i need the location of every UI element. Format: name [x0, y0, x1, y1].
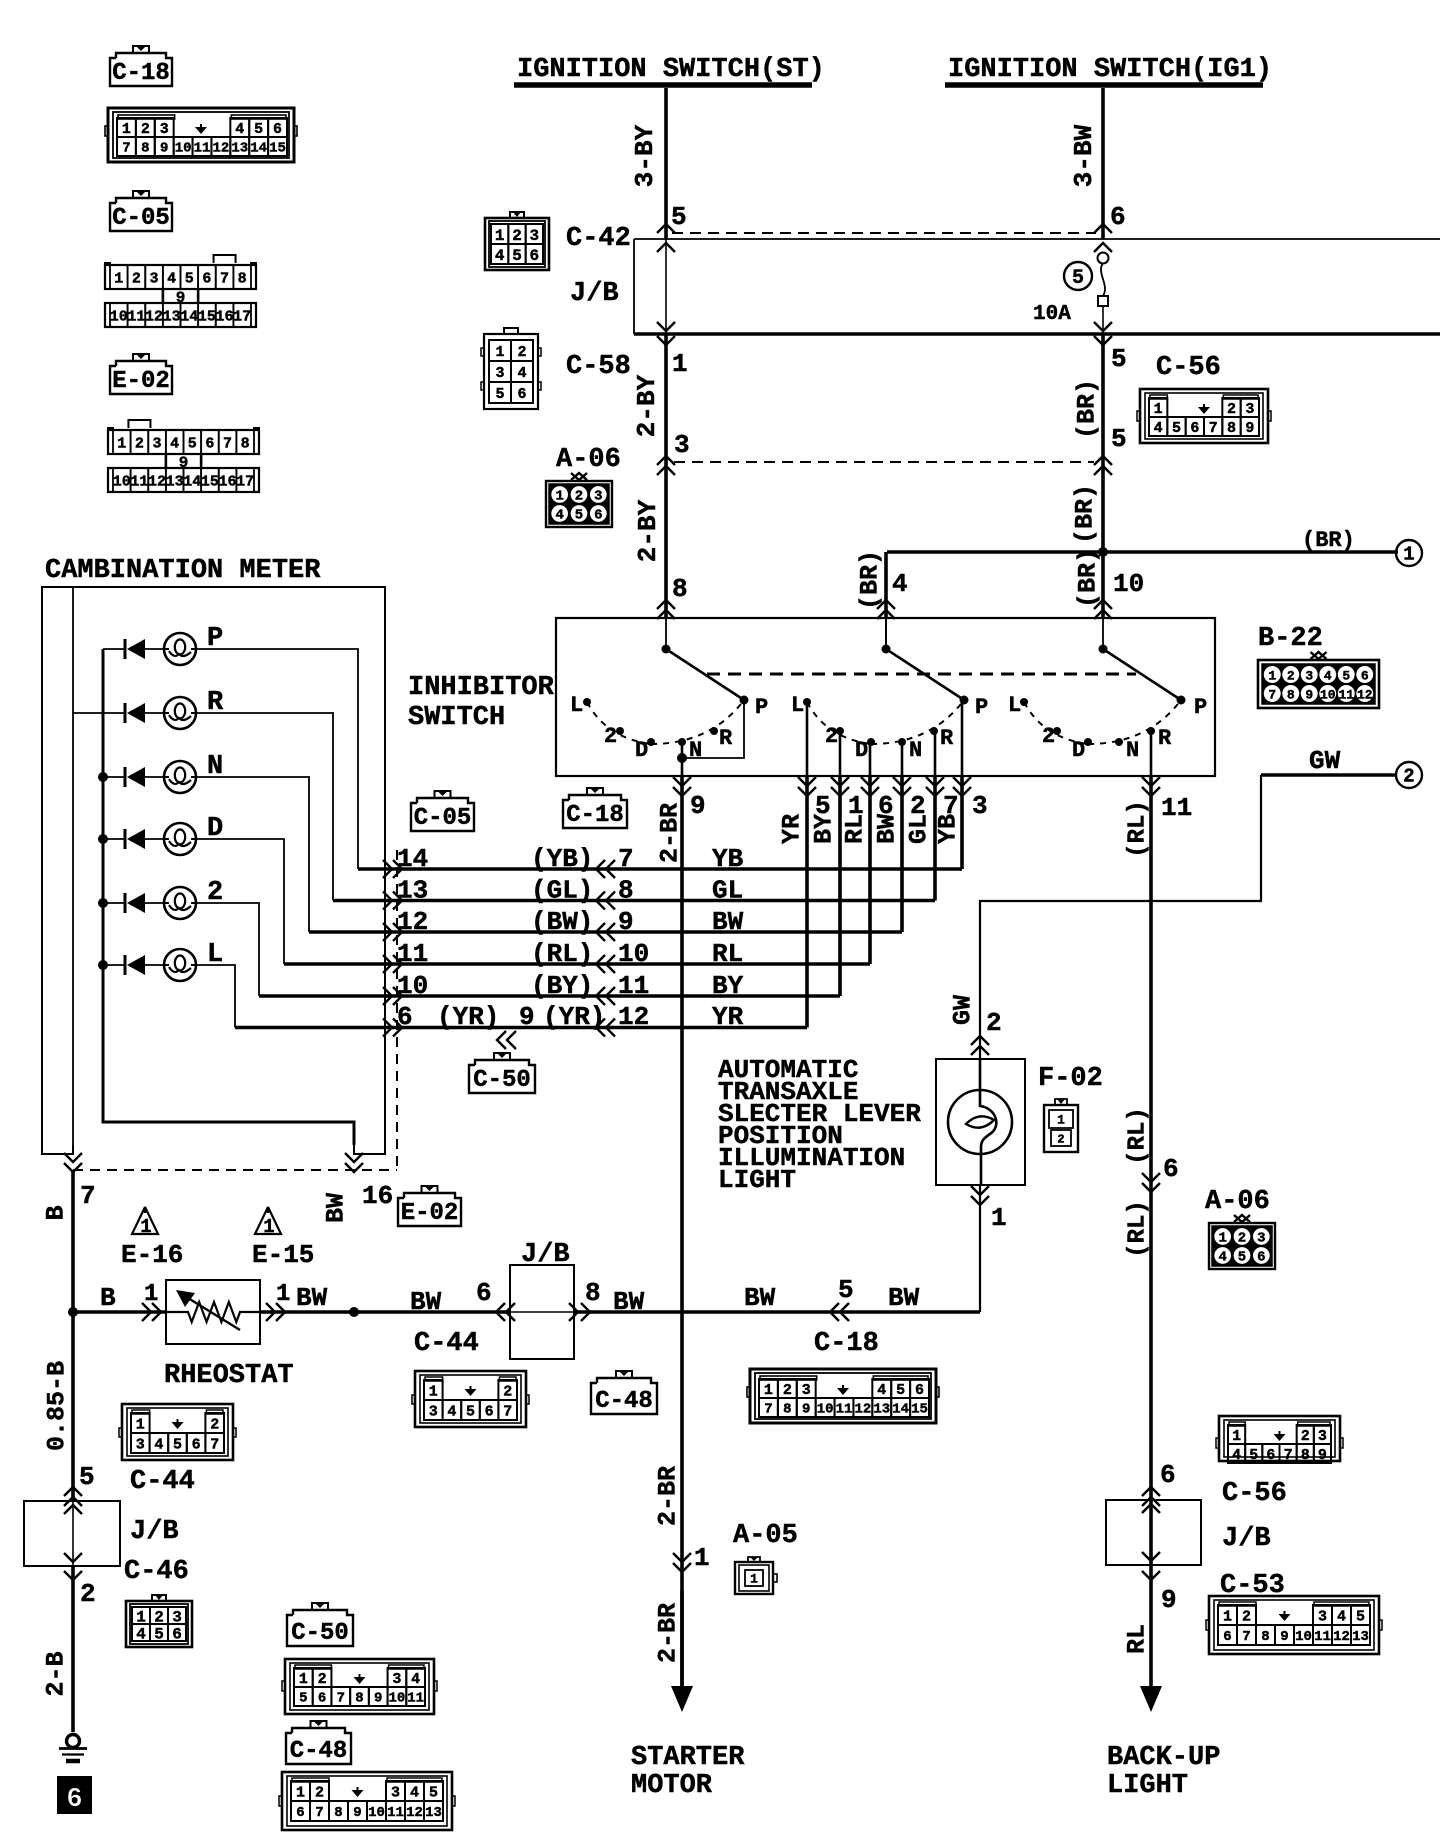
svg-text:5: 5 — [1072, 267, 1084, 290]
svg-text:(RL): (RL) — [1125, 1200, 1152, 1258]
svg-text:9: 9 — [802, 1402, 810, 1418]
connector C-56 right — [1216, 1416, 1343, 1509]
svg-text:F-02: F-02 — [1038, 1064, 1103, 1094]
svg-text:16: 16 — [362, 1181, 393, 1211]
label A-06 right — [1205, 1187, 1275, 1269]
svg-text:RL: RL — [841, 814, 870, 844]
svg-text:1: 1 — [495, 227, 505, 245]
svg-text:C-56: C-56 — [1156, 353, 1221, 383]
svg-text:C-18: C-18 — [814, 1329, 879, 1359]
svg-text:17: 17 — [233, 308, 251, 325]
wire GW down to F-02 lamp — [949, 775, 1262, 1059]
svg-text:3: 3 — [594, 489, 602, 505]
svg-text:5: 5 — [671, 202, 687, 232]
pin 16 of meter connector — [322, 1153, 394, 1223]
svg-text:9: 9 — [690, 791, 706, 821]
terminal circle 1 — [1396, 540, 1422, 566]
svg-text:10: 10 — [1113, 569, 1144, 599]
svg-text:15: 15 — [198, 308, 216, 325]
svg-text:6: 6 — [517, 386, 526, 403]
pin 9 output pole1 2-BR — [656, 777, 706, 863]
svg-text:YB: YB — [934, 814, 963, 844]
svg-text:SWITCH: SWITCH — [408, 703, 505, 733]
svg-text:5: 5 — [1238, 1250, 1246, 1266]
svg-text:3: 3 — [429, 1403, 438, 1420]
svg-text:13: 13 — [231, 141, 248, 157]
connector C-53 — [1209, 1596, 1379, 1654]
svg-text:11: 11 — [127, 308, 145, 325]
connector C-18 bottom — [747, 1329, 939, 1423]
connector C-05 ref — [214, 255, 236, 263]
svg-text:BW: BW — [873, 814, 902, 844]
svg-text:12: 12 — [618, 1002, 649, 1032]
svg-text:15: 15 — [201, 473, 219, 490]
svg-text:5: 5 — [154, 1625, 164, 1643]
svg-text:14: 14 — [183, 473, 201, 490]
svg-text:5: 5 — [1111, 424, 1127, 454]
svg-text:CAMBINATION METER: CAMBINATION METER — [45, 556, 321, 586]
wire B column to rheostat row — [68, 1170, 78, 1317]
svg-text:16: 16 — [216, 308, 234, 325]
connector label C-48 mid — [616, 1371, 632, 1378]
svg-text:4: 4 — [447, 1403, 456, 1420]
svg-text:C-46: C-46 — [124, 1557, 189, 1587]
wire BW to F-02 pin 5 C-18 — [744, 1185, 980, 1321]
svg-text:5: 5 — [495, 386, 504, 403]
svg-text:6: 6 — [1163, 1154, 1179, 1184]
svg-text:1: 1 — [764, 1382, 773, 1399]
svg-text:N: N — [689, 738, 702, 763]
svg-text:1: 1 — [1223, 1608, 1232, 1625]
svg-text:RL: RL — [1123, 1624, 1152, 1654]
pin 7 of meter connector — [42, 1153, 96, 1221]
svg-text:5: 5 — [466, 1403, 475, 1420]
svg-text:7: 7 — [122, 141, 130, 157]
svg-text:A-05: A-05 — [733, 1521, 798, 1551]
wire GW to terminal 2 — [1261, 746, 1395, 776]
svg-text:3: 3 — [1318, 1608, 1327, 1625]
svg-text:GW: GW — [1309, 746, 1341, 776]
svg-text:(RL): (RL) — [1125, 800, 1152, 858]
connector F-02 — [1038, 1064, 1103, 1152]
svg-text:12: 12 — [854, 1402, 871, 1418]
svg-text:L: L — [570, 693, 583, 718]
connector label C-18 ref — [133, 46, 149, 53]
svg-text:2-BR: 2-BR — [656, 803, 685, 863]
svg-text:15: 15 — [911, 1402, 928, 1418]
svg-text:5: 5 — [429, 1784, 438, 1801]
connector label C-05 above matrix — [435, 791, 451, 798]
connector C-58 — [481, 328, 631, 409]
svg-text:J/B: J/B — [1222, 1524, 1271, 1554]
svg-text:(YB): (YB) — [531, 844, 593, 874]
svg-text:12: 12 — [406, 1805, 423, 1821]
junction block J/B 4 right — [1106, 1500, 1271, 1565]
svg-text:C-05: C-05 — [112, 205, 170, 232]
svg-text:3: 3 — [495, 365, 504, 382]
svg-text:3: 3 — [802, 1382, 811, 1399]
svg-text:9: 9 — [353, 1805, 361, 1821]
svg-text:1: 1 — [1154, 401, 1163, 418]
wire RL back-up trunk — [1149, 776, 1153, 1700]
indicator lamp P with diode — [103, 624, 223, 665]
junction block J/B box — [634, 239, 1440, 334]
svg-text:10A: 10A — [1033, 303, 1071, 326]
svg-text:8: 8 — [1227, 420, 1236, 437]
svg-text:B: B — [100, 1283, 116, 1313]
svg-text:8: 8 — [238, 270, 247, 287]
svg-text:1: 1 — [991, 1203, 1007, 1233]
svg-text:5: 5 — [1249, 1447, 1258, 1464]
svg-text:(RL): (RL) — [1125, 1107, 1152, 1165]
svg-text:BACK-UP: BACK-UP — [1107, 1743, 1220, 1773]
svg-text:6: 6 — [202, 270, 211, 287]
wire lamp P to row — [195, 649, 358, 869]
wire row 6 (YR) 12 YR — [235, 776, 807, 1049]
svg-text:9: 9 — [160, 141, 168, 157]
svg-text:7: 7 — [220, 270, 229, 287]
svg-text:8: 8 — [334, 1805, 342, 1821]
pin 11 output pole3 — [1125, 777, 1193, 858]
svg-text:13: 13 — [425, 1805, 442, 1821]
svg-text:10: 10 — [110, 308, 128, 325]
svg-text:1: 1 — [114, 270, 123, 287]
svg-text:6: 6 — [1223, 1629, 1231, 1645]
svg-text:5: 5 — [1356, 1608, 1365, 1625]
svg-text:6: 6 — [296, 1805, 304, 1821]
svg-text:L: L — [791, 693, 804, 718]
pin 2 C-46 — [64, 1557, 189, 1609]
svg-text:11: 11 — [387, 1805, 404, 1821]
svg-text:3: 3 — [674, 430, 690, 460]
svg-text:9: 9 — [618, 907, 634, 937]
svg-text:(YR): (YR) — [437, 1002, 499, 1032]
label A-05 — [733, 1521, 798, 1594]
svg-text:1: 1 — [1403, 544, 1414, 566]
svg-text:6: 6 — [530, 247, 540, 265]
svg-text:2: 2 — [604, 724, 617, 749]
pin 1 of F-02 — [971, 1186, 1007, 1233]
wire IG1 3-BW — [1069, 88, 1103, 239]
svg-text:R: R — [1158, 726, 1172, 751]
svg-text:13: 13 — [166, 473, 184, 490]
svg-text:7: 7 — [1209, 420, 1218, 437]
svg-text:1: 1 — [263, 1216, 274, 1238]
pin 6 of C-42 — [1094, 202, 1126, 233]
svg-text:10: 10 — [389, 1691, 406, 1707]
svg-text:0.85-B: 0.85-B — [43, 1361, 72, 1451]
junction block J/B 2 — [510, 1240, 574, 1359]
svg-text:C-50: C-50 — [291, 1620, 349, 1647]
svg-text:8: 8 — [672, 574, 688, 604]
svg-text:D: D — [1072, 738, 1085, 763]
svg-text:MOTOR: MOTOR — [631, 1771, 713, 1801]
svg-text:1: 1 — [117, 435, 126, 452]
svg-text:2: 2 — [825, 724, 838, 749]
svg-text:7: 7 — [337, 1691, 345, 1707]
svg-text:5: 5 — [299, 1691, 307, 1707]
junction block J/B 3 left — [24, 1501, 179, 1566]
svg-text:7: 7 — [1268, 688, 1276, 703]
connector label E-02 ref — [133, 354, 149, 361]
svg-text:17: 17 — [236, 473, 254, 490]
svg-text:C-50: C-50 — [473, 1067, 531, 1094]
svg-text:6: 6 — [485, 1403, 494, 1420]
terminal circle 2 — [1396, 762, 1422, 788]
svg-text:6: 6 — [1160, 1460, 1176, 1490]
connector C-50 bottom — [285, 1659, 434, 1714]
connector label C-50 bottom — [312, 1603, 328, 1610]
svg-text:(BR): (BR) — [856, 550, 885, 610]
svg-text:2: 2 — [318, 1671, 327, 1688]
svg-text:5: 5 — [1111, 344, 1127, 374]
meter lamp bus — [103, 649, 354, 1145]
svg-text:1: 1 — [136, 1416, 145, 1433]
wire row 11 (RL) RL — [284, 776, 870, 973]
wire (BR) to junction — [1071, 484, 1100, 544]
svg-text:4: 4 — [411, 1671, 420, 1688]
svg-text:2: 2 — [1242, 1608, 1251, 1625]
svg-text:1: 1 — [299, 1671, 308, 1688]
svg-text:1: 1 — [429, 1383, 438, 1400]
wire (RL) labels down right — [1125, 1107, 1179, 1258]
svg-text:11: 11 — [836, 1402, 853, 1418]
svg-text:2: 2 — [141, 121, 150, 138]
svg-text:8: 8 — [141, 141, 149, 157]
svg-text:1: 1 — [276, 1281, 290, 1308]
title IGNITION SWITCH(ST) — [514, 55, 825, 85]
svg-text:E-15: E-15 — [252, 1240, 314, 1270]
pin 6 to J/B right — [1142, 1460, 1176, 1506]
svg-text:9: 9 — [1318, 1447, 1327, 1464]
svg-text:YR: YR — [712, 1002, 744, 1032]
svg-text:2: 2 — [135, 435, 144, 452]
svg-text:12: 12 — [1333, 1629, 1350, 1645]
svg-text:J/B: J/B — [570, 279, 619, 309]
svg-text:6: 6 — [318, 1691, 326, 1707]
svg-text:10: 10 — [1320, 688, 1336, 703]
connector B-22 — [1258, 624, 1379, 708]
svg-text:A-06: A-06 — [556, 445, 621, 475]
svg-text:E-16: E-16 — [121, 1240, 183, 1270]
pins 5 1 6 2 7 3 of inhibitor pole2 — [778, 777, 988, 844]
svg-text:2: 2 — [517, 344, 526, 361]
wire 2-B to ground — [42, 1566, 74, 1732]
wire 3-BY from ignition switch ST — [630, 88, 666, 239]
svg-text:C-18: C-18 — [112, 60, 170, 87]
svg-text:9: 9 — [374, 1691, 382, 1707]
svg-text:1: 1 — [672, 349, 688, 379]
svg-text:2: 2 — [132, 270, 141, 287]
label STARTER MOTOR — [631, 1743, 745, 1801]
svg-text:(BR): (BR) — [1073, 379, 1102, 439]
wire (BR) branch to inhibitor pin 4 — [856, 550, 908, 619]
svg-text:(BY): (BY) — [531, 971, 593, 1001]
svg-text:BW: BW — [410, 1287, 442, 1317]
svg-text:5: 5 — [838, 1275, 854, 1305]
svg-text:IGNITION SWITCH(ST): IGNITION SWITCH(ST) — [517, 55, 825, 85]
svg-text:10: 10 — [397, 971, 428, 1001]
svg-text:2: 2 — [503, 1383, 512, 1400]
svg-text:5: 5 — [79, 1462, 95, 1492]
svg-text:13: 13 — [1352, 1629, 1369, 1645]
wire 2-BY C-58 pin1 to pin3 — [632, 334, 690, 618]
svg-text:D: D — [635, 738, 648, 763]
svg-text:8: 8 — [355, 1691, 363, 1707]
svg-text:11: 11 — [1338, 688, 1354, 703]
svg-text:3: 3 — [1305, 669, 1313, 684]
svg-text:10: 10 — [113, 473, 131, 490]
svg-text:14: 14 — [892, 1402, 909, 1418]
svg-text:3: 3 — [392, 1671, 401, 1688]
svg-text:2: 2 — [1301, 1428, 1310, 1445]
svg-text:11: 11 — [1161, 793, 1192, 823]
svg-text:J/B: J/B — [521, 1240, 570, 1270]
wire 2-BR to starter motor — [654, 1466, 710, 1712]
svg-text:7: 7 — [210, 1436, 219, 1453]
svg-text:4: 4 — [1218, 1250, 1226, 1266]
svg-text:9: 9 — [1245, 420, 1254, 437]
lamp F-02 automatic transaxle selector lever position illumination light — [936, 1059, 1025, 1185]
svg-text:4: 4 — [410, 1784, 419, 1801]
svg-text:7: 7 — [618, 844, 634, 874]
svg-text:12: 12 — [397, 907, 428, 937]
svg-text:6: 6 — [594, 508, 602, 524]
svg-text:6: 6 — [476, 1278, 492, 1308]
svg-text:4: 4 — [1154, 420, 1163, 437]
pole3 R contact wire down — [1150, 731, 1153, 776]
svg-text:D: D — [855, 738, 868, 763]
svg-text:BW: BW — [744, 1283, 776, 1313]
svg-text:1: 1 — [140, 1216, 151, 1238]
svg-text:10: 10 — [618, 939, 649, 969]
svg-text:13: 13 — [873, 1402, 890, 1418]
svg-text:2: 2 — [783, 1382, 792, 1399]
svg-text:2: 2 — [80, 1579, 96, 1609]
svg-text:C-44: C-44 — [414, 1329, 479, 1359]
svg-text:BY: BY — [712, 971, 744, 1001]
svg-text:4: 4 — [136, 1625, 146, 1643]
svg-text:13: 13 — [163, 308, 181, 325]
ground warning triangle E-16 — [121, 1207, 183, 1270]
text automatic transaxle slecter lever position illumination light — [718, 1055, 921, 1195]
svg-text:4: 4 — [235, 121, 244, 138]
svg-text:8: 8 — [783, 1402, 791, 1418]
svg-text:3: 3 — [1257, 1231, 1265, 1247]
indicator lamp L with diode — [98, 940, 223, 981]
svg-text:1: 1 — [296, 1784, 305, 1801]
svg-text:5: 5 — [896, 1382, 905, 1399]
svg-text:INHIBITOR: INHIBITOR — [408, 673, 555, 703]
dashed line inside inhibitor switch — [707, 673, 1136, 676]
svg-text:1: 1 — [1232, 1428, 1241, 1445]
svg-text:2: 2 — [1287, 669, 1295, 684]
svg-text:2-B: 2-B — [42, 1651, 71, 1696]
svg-text:7: 7 — [80, 1181, 96, 1211]
svg-text:8: 8 — [241, 435, 250, 452]
pin 8 BW from J/B — [569, 1278, 980, 1321]
inhibitor switch pole 2 (IG1 gauge) — [791, 618, 988, 763]
svg-text:(GL): (GL) — [531, 876, 593, 906]
svg-text:2-BR: 2-BR — [654, 1466, 683, 1526]
svg-text:RL: RL — [712, 939, 743, 969]
svg-text:5: 5 — [1172, 420, 1181, 437]
svg-text:1: 1 — [1268, 669, 1276, 684]
svg-text:(RL): (RL) — [531, 939, 593, 969]
svg-text:LIGHT: LIGHT — [1107, 1771, 1188, 1801]
wire row 10 (BY) BY — [259, 776, 840, 1005]
connector E-02 ref — [128, 420, 150, 428]
svg-text:1: 1 — [694, 1543, 710, 1573]
connector C-44 right — [412, 1329, 529, 1427]
combination meter box — [42, 556, 385, 1154]
svg-text:12: 12 — [148, 473, 166, 490]
connector label E-02 mid — [422, 1186, 438, 1193]
svg-text:1: 1 — [555, 489, 563, 505]
svg-text:3: 3 — [530, 227, 540, 245]
wire 0.85-B ground leg — [43, 1312, 95, 1506]
svg-text:R: R — [940, 726, 954, 751]
svg-text:8: 8 — [618, 876, 634, 906]
svg-text:2-BY: 2-BY — [632, 374, 662, 437]
connector C-44 left — [119, 1404, 236, 1497]
svg-text:2: 2 — [1238, 1231, 1246, 1247]
svg-text:6: 6 — [205, 435, 214, 452]
svg-text:9: 9 — [1305, 688, 1313, 703]
label A-06 top — [546, 445, 621, 527]
svg-text:3-BW: 3-BW — [1069, 124, 1099, 187]
ground warning triangle E-15 — [252, 1207, 314, 1270]
svg-text:14: 14 — [250, 141, 267, 157]
rheostat R — [164, 1280, 294, 1391]
svg-text:14: 14 — [397, 844, 428, 874]
svg-text:P: P — [1194, 695, 1207, 720]
svg-text:IGNITION SWITCH(IG1): IGNITION SWITCH(IG1) — [948, 55, 1272, 85]
svg-text:B-22: B-22 — [1258, 624, 1323, 654]
connector label C-50 under row 6 — [494, 1053, 510, 1060]
svg-text:12: 12 — [1357, 688, 1373, 703]
wire row 12 (BW) BW — [309, 776, 902, 941]
svg-text:GL: GL — [905, 814, 934, 844]
wire lamp R to row — [195, 713, 333, 901]
svg-text:RHEOSTAT: RHEOSTAT — [164, 1361, 294, 1391]
wire pole1 P to N output — [677, 700, 744, 776]
pin 5 of C-42 — [657, 202, 687, 233]
pin 9 C-53 — [1142, 1571, 1285, 1615]
svg-text:2: 2 — [575, 489, 583, 505]
wire BW rheostat to junction — [260, 1281, 510, 1321]
svg-text:C-05: C-05 — [414, 805, 472, 832]
wire lamp L to row — [195, 965, 235, 1028]
svg-text:6: 6 — [172, 1625, 182, 1643]
svg-text:GL: GL — [712, 876, 743, 906]
title IGNITION SWITCH(IG1) — [945, 55, 1272, 85]
svg-text:1: 1 — [495, 344, 504, 361]
svg-text:11: 11 — [407, 1691, 424, 1707]
inhibitor switch box — [408, 618, 1215, 776]
svg-text:3: 3 — [136, 1436, 145, 1453]
svg-text:2-BY: 2-BY — [633, 499, 663, 562]
svg-text:4: 4 — [1232, 1447, 1241, 1464]
svg-text:8: 8 — [1301, 1447, 1310, 1464]
svg-text:3: 3 — [153, 435, 162, 452]
svg-text:1: 1 — [144, 1281, 158, 1308]
svg-text:6: 6 — [1266, 1447, 1275, 1464]
svg-text:2-BR: 2-BR — [654, 1603, 683, 1663]
svg-text:5: 5 — [1342, 669, 1350, 684]
wire RL to back-up light — [1123, 1624, 1163, 1712]
svg-text:16: 16 — [219, 473, 237, 490]
